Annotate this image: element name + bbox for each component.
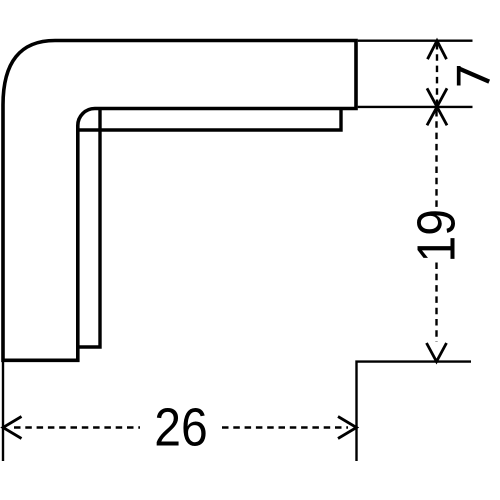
arrow right (26 dim) <box>338 417 357 439</box>
arrow down (7 dim, bottom, upper half of X) <box>427 88 447 107</box>
extension line bottom-left (x=3) <box>2 362 4 461</box>
dim line 19 (dashed vertical, gap for text) <box>435 110 437 207</box>
extension line middle (y=106.9) <box>358 106 473 108</box>
arrow down (19 dim, bottom) <box>427 343 447 362</box>
arrow left (26 dim) <box>3 417 22 439</box>
extension corner bottom-right <box>357 362 472 461</box>
adhesive strip, top leg <box>78 110 341 130</box>
adhesive strip, left leg <box>78 110 100 347</box>
label 7 (rotated, drawn as strokes) <box>459 66 490 86</box>
profile outline (L-shaped corner profile, outer + inner contour) <box>3 41 356 361</box>
dim line 7 (dashed vertical) <box>436 43 438 104</box>
svg-text:26: 26 <box>154 397 207 457</box>
extension line top (y=40.5) <box>358 40 473 42</box>
svg-text:19: 19 <box>406 209 466 262</box>
dim line 26 (dashed horizontal, gap for text) <box>14 426 140 428</box>
arrow up (19 dim, top, lower half of X) <box>427 107 447 126</box>
arrow up (7 dim, top) <box>428 41 447 60</box>
